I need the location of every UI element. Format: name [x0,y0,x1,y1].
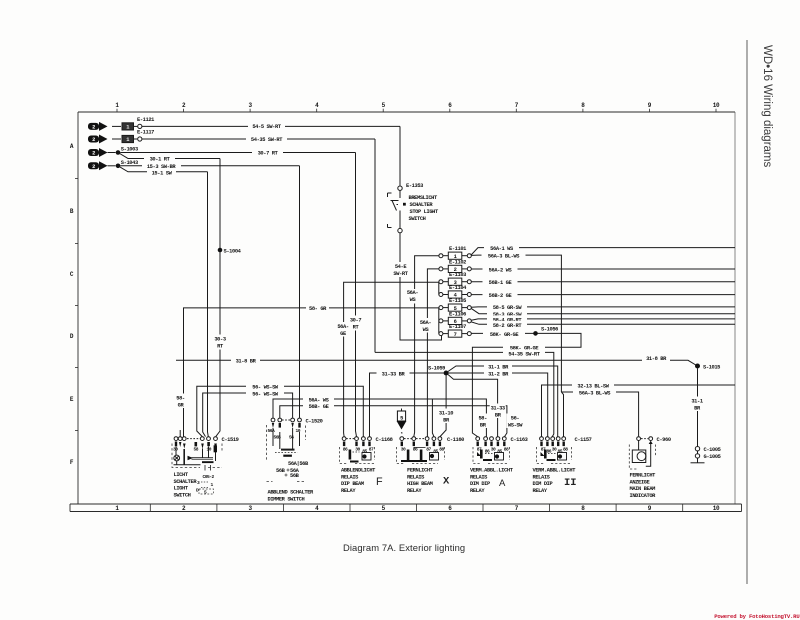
wire 58-3 GR-SW [471,308,735,313]
dim dip relay A internals [477,442,506,462]
sidebar caption WD-16 Wiring diagrams [761,45,773,167]
wire 54-E below stop switch [400,233,442,340]
svg-text:D: D [70,333,74,340]
svg-text:2: 2 [92,164,95,170]
wire 56B-1 GE [471,281,735,283]
svg-text:56B- GE: 56B- GE [309,404,330,410]
svg-text:87: 87 [477,447,482,453]
svg-text:58-: 58- [176,396,185,402]
svg-text:58-2 GR-RT: 58-2 GR-RT [493,323,523,329]
wire E-1101 left to high-beam relay [414,256,439,437]
svg-text:2: 2 [182,505,186,512]
svg-text:56B: 56B [290,473,300,479]
off-page arrow connector row A4 [88,161,108,170]
svg-text:E-1104: E-1104 [449,285,467,291]
svg-text:RELAIS: RELAIS [407,474,425,480]
svg-text:E: E [70,396,74,403]
wire 58-4 GR-RT [471,319,735,320]
wire 31-1 BR [448,366,558,437]
wire E-1103 left to dip-beam relay [344,282,439,436]
svg-text:31-10: 31-10 [439,411,453,417]
svg-text:2: 2 [182,102,186,109]
svg-text:56A: 56A [268,428,276,434]
dim dip relay II internals [540,442,566,462]
dip beam relay C-1168 terminals [342,437,371,441]
svg-text:30-7 RT: 30-7 RT [258,150,279,156]
svg-text:DIM DIP: DIM DIP [470,481,490,487]
svg-text:3: 3 [248,505,252,512]
splice S-1004 [218,248,223,253]
svg-text:HIGH BEAM: HIGH BEAM [407,481,433,487]
svg-text:A: A [499,478,506,489]
svg-text:D: D [196,488,199,494]
connector E-1117 [112,135,142,142]
svg-text:56A|56B: 56A|56B [288,461,309,467]
svg-text:RELAY: RELAY [470,488,485,494]
connector E-1107 [439,330,471,337]
svg-text:85: 85 [362,449,367,455]
light switch stub terminal 2 [179,430,181,437]
svg-text:E-1101: E-1101 [449,246,466,252]
svg-text:2: 2 [92,137,95,143]
svg-text:SWITCH: SWITCH [409,216,426,222]
page sidebar rule [746,40,748,584]
svg-text:C-1168: C-1168 [376,437,393,443]
svg-text:Diagram 7A. Exterior lighting: Diagram 7A. Exterior lighting [343,542,465,553]
ruler ticks top [75,109,716,512]
wire vertical 54-5 down to stop switch [399,126,401,185]
svg-text:56A-1 WS: 56A-1 WS [490,246,514,252]
svg-text:C-1163: C-1163 [511,437,528,443]
svg-text:31-2 BR: 31-2 BR [488,371,509,377]
svg-text:58-: 58- [478,416,487,422]
wire 56B-2 GE [471,294,735,296]
svg-text:1: 1 [211,482,214,488]
off-page arrow connector row A1 [88,122,108,131]
wire 31-10 BR S-1059 down to high beam relay [440,376,446,437]
splice S-1015 [695,364,700,369]
dimmer switch C-1520 terminals [271,418,301,422]
off-page arrow down to diagram 5 [401,409,403,412]
svg-text:56: 56 [289,434,294,440]
svg-text:RELAY: RELAY [407,488,422,494]
svg-text:87: 87 [541,447,546,453]
wire 32-13 BL-SW relay II to frame edge [542,385,736,437]
svg-text:VERM.ABBL.LICHT: VERM.ABBL.LICHT [533,468,577,474]
svg-text:30-1 RT: 30-1 RT [150,157,171,163]
svg-text:S-1004: S-1004 [224,248,242,254]
svg-text:S-1003: S-1003 [121,147,138,153]
svg-text:F: F [376,476,383,488]
svg-text:F: F [70,459,74,466]
svg-text:6: 6 [448,505,452,512]
ruler numbers [70,102,720,512]
wire 54-35 run to dim dip relay II [375,352,554,436]
svg-text:86: 86 [343,447,348,453]
ground [691,458,705,463]
connector E-1104 [439,291,471,298]
svg-text:30: 30 [552,447,557,453]
svg-text:9: 9 [648,505,652,512]
wire 30-7 RT [120,152,355,154]
wire 58K- GR-GE with splice S-1056 [471,333,581,436]
svg-text:FERNLICHT: FERNLICHT [630,473,657,479]
high beam relay C-1160 terminals [400,437,442,441]
wire 56- WS-SW light switch to dip relay [197,386,363,436]
svg-text:56A-: 56A- [420,320,432,326]
svg-text:RELAIS: RELAIS [470,474,488,480]
connector E-1102 [439,265,471,272]
svg-text:E-1102: E-1102 [449,259,466,265]
svg-text:DIM DIP: DIM DIP [533,481,553,487]
wire 31-8 BR ground bus [176,360,698,366]
light switch sub connector C05-2 [205,465,211,471]
svg-text:30-7: 30-7 [350,318,362,324]
svg-text:G-1005: G-1005 [704,454,721,460]
svg-text:88: 88 [439,447,444,453]
off-page arrow connector row A3 [88,148,108,157]
wire 56- WS-SW light switch to dimmer [203,393,293,437]
svg-text:54-35 SW-RT: 54-35 SW-RT [251,137,283,143]
svg-text:WD•16 Wiring diagrams: WD•16 Wiring diagrams [761,45,773,167]
svg-text:SWITCH: SWITCH [174,492,191,498]
svg-text:58- GR: 58- GR [309,306,327,312]
svg-text:BREMSLICHT: BREMSLICHT [409,195,439,201]
wire 15-3 SW-BR [120,165,299,167]
wire 58-5 GR-SW [471,306,735,308]
svg-text:SCHALTER: SCHALTER [410,202,434,208]
svg-text:C: C [70,271,74,278]
svg-text:SCHALTER: SCHALTER [174,479,198,485]
svg-text:S-1059: S-1059 [428,366,445,372]
svg-text:10: 10 [713,102,720,109]
svg-text:4: 4 [315,505,319,512]
svg-text:30: 30 [401,447,406,453]
svg-text:B: B [70,208,74,215]
svg-text:E-1117: E-1117 [137,130,154,136]
wire 15-1 SW [118,166,208,172]
svg-text:31-33: 31-33 [491,406,505,412]
wire 58-2 GR-RT [471,322,735,324]
bracket E-1105/E-1106/E-1107 left [438,308,440,334]
svg-text:E-1105: E-1105 [449,298,466,304]
svg-text:10: 10 [207,446,212,452]
main beam indicator lamp [649,441,653,444]
svg-text:WS-SW: WS-SW [508,423,523,429]
svg-text:5: 5 [382,102,386,109]
svg-text:RELAIS: RELAIS [533,474,551,480]
svg-text:88: 88 [504,447,509,453]
svg-text:RELAY: RELAY [341,488,356,494]
svg-text:31-1: 31-1 [691,399,703,405]
wire 31-1 BR S-1015 down to ground [697,369,699,447]
svg-text:1: 1 [126,137,129,143]
svg-text:A: A [70,143,74,150]
svg-text:9: 9 [648,102,652,109]
connector E-1105 [439,304,471,311]
svg-text:54-35 SW-RT: 54-35 SW-RT [508,351,540,357]
svg-text:C-1519: C-1519 [222,437,239,443]
svg-text:C05-2: C05-2 [203,474,215,480]
drawing frame [70,112,742,512]
svg-text:8: 8 [581,102,585,109]
bracket E-1103/E-1104 left [438,282,440,295]
svg-text:6: 6 [448,102,452,109]
svg-text:1: 1 [115,102,119,109]
wire 54-35 SW-RT [142,138,375,140]
off-page arrow connector row A2 [88,135,108,144]
svg-text:3: 3 [197,480,200,486]
svg-text:56-: 56- [511,416,520,422]
svg-text:LIGHT: LIGHT [174,486,189,492]
svg-text:56A-: 56A- [337,324,349,330]
wire 31-33 BR from dip relay to S-1059 [370,373,444,437]
svg-text:SW-RT: SW-RT [393,271,408,277]
wire 56A-2 WS [471,268,735,270]
dim dip relay A C-1163 terminals [476,437,506,441]
dimmer switch internals [272,423,301,428]
high beam relay internals [401,442,442,463]
svg-text:31-8 BR: 31-8 BR [646,356,667,362]
wire vertical 15-1 down to light switch [207,172,210,437]
wire 30-1 RT [118,153,220,159]
svg-text:30: 30 [491,447,496,453]
light switch dashed enclosure [172,444,222,468]
svg-text:1: 1 [126,125,129,131]
svg-text:7: 7 [515,505,519,512]
wire 56A- WS dimmer to relays [273,399,486,437]
svg-text:54-E: 54-E [395,264,408,270]
svg-text:54-5 SW-RT: 54-5 SW-RT [252,124,282,130]
svg-text:E-1353: E-1353 [406,183,423,189]
wire S-1059 branch to dim dip relay A [448,375,498,437]
svg-text:II: II [564,477,577,489]
svg-text:15-1 SW: 15-1 SW [152,170,173,176]
splice S-1059 [444,371,449,376]
connector E-1121 [112,123,142,130]
splice S-1043 [108,165,116,167]
svg-text:E-1103: E-1103 [449,272,466,278]
svg-text:FERNLICHT: FERNLICHT [407,468,434,474]
svg-text:58K- GR-GE: 58K- GR-GE [490,332,520,338]
svg-text:8: 8 [581,505,585,512]
wire 56A-3 BL-WS [471,255,561,392]
svg-text:S-1015: S-1015 [703,364,720,370]
wire 56B- GE dimmer to dim dip relay A [280,406,507,437]
connector C-1005 [695,447,699,451]
wire vertical 30-1 down [216,159,220,437]
wire vertical 30-7 down [356,153,357,437]
svg-text:LICHT: LICHT [174,472,189,478]
dimmer dashed enclosure [267,425,306,482]
svg-text:56A-: 56A- [407,290,419,296]
svg-text:E-1121: E-1121 [137,117,154,123]
svg-text:RELAIS: RELAIS [341,474,359,480]
svg-text:C-960: C-960 [657,437,671,443]
svg-text:3: 3 [248,102,252,109]
light switch C-1519 terminals [174,437,217,441]
main beam indicator C-960 terminals [637,437,653,441]
svg-text:7: 7 [454,332,457,338]
svg-text:31-33 BR: 31-33 BR [382,371,406,377]
wire 56A-1 WS [471,248,735,255]
svg-text:E-1107: E-1107 [449,324,466,330]
svg-text:85: 85 [433,449,438,455]
connector G-1005 [697,451,699,454]
light switch internals [175,442,217,449]
svg-text:87: 87 [369,447,374,453]
svg-text:C-1160: C-1160 [447,437,464,443]
connector E-1103 [439,278,471,285]
svg-text:31-8 BR: 31-8 BR [236,359,257,365]
wire vertical 54-35 down [374,139,376,352]
dim dip relay II C-1157 terminals [540,437,566,441]
svg-text:56B-2 GE: 56B-2 GE [489,293,513,299]
svg-text:56A-2 WS: 56A-2 WS [489,267,513,273]
svg-text:DIP BEAM: DIP BEAM [341,481,364,487]
svg-text:56A-3 BL-WS: 56A-3 BL-WS [488,253,520,259]
svg-text:C-1005: C-1005 [704,447,721,453]
wire 54-5 SW-RT [142,125,400,127]
connector E-1101 [439,252,471,259]
svg-text:56B: 56B [276,468,286,474]
svg-text:2: 2 [92,151,95,157]
svg-text:88: 88 [563,447,568,453]
wire 58- GR light switch to E-1105 [184,308,439,437]
svg-text:30-3: 30-3 [214,337,226,343]
svg-text:5: 5 [204,490,207,496]
svg-text:1: 1 [115,505,119,512]
svg-text:56- WS-SW: 56- WS-SW [252,392,279,398]
svg-text:7: 7 [515,102,519,109]
wire E-1102 left to high-beam relay [427,269,439,437]
svg-text:Powered by FotoHostingTV.RU: Powered by FotoHostingTV.RU [714,613,799,620]
svg-text:85: 85 [497,449,502,455]
svg-text:C-1157: C-1157 [575,437,592,443]
svg-text:ABBLENDLICHT: ABBLENDLICHT [341,468,376,474]
svg-text:86: 86 [413,447,418,453]
wire vertical 15-3 down to dimmer [299,166,301,418]
svg-text:4: 4 [315,102,319,109]
svg-text:X: X [443,476,450,488]
svg-text:INDICATOR: INDICATOR [630,493,657,499]
svg-text:ABBLEND SCHALTER: ABBLEND SCHALTER [268,490,315,496]
svg-text:5: 5 [382,505,386,512]
svg-text:RELAY: RELAY [533,488,548,494]
svg-text:DIMMER SWITCH: DIMMER SWITCH [268,497,305,503]
svg-text:5: 5 [400,416,403,422]
svg-text:56A-3 BL-WS: 56A-3 BL-WS [579,390,611,396]
splice S-1003 [108,152,116,154]
stop light switch E-1353 [398,186,402,190]
dip beam relay internals [343,442,371,463]
connector E-1106 [439,317,471,324]
svg-text:C-1520: C-1520 [306,418,323,424]
svg-text:87: 87 [426,447,431,453]
svg-text:30: 30 [355,447,360,453]
svg-text:58: 58 [194,446,199,452]
wire 56A-3 BL-WS to main beam indicator [561,392,638,436]
wire 31-2 BR [448,373,547,437]
svg-text:STOP LIGHT: STOP LIGHT [410,209,440,215]
svg-text:VERM.ABBL.LICHT: VERM.ABBL.LICHT [470,468,514,474]
svg-text:10: 10 [713,505,720,512]
svg-text:MAIN BEAM: MAIN BEAM [630,486,656,492]
svg-text:ANZEIGE: ANZEIGE [630,479,651,485]
svg-text:E-1106: E-1106 [449,311,466,317]
svg-text:56B-1 GE: 56B-1 GE [489,280,513,286]
stacked labels above dim dip relay A [476,414,490,429]
svg-text:S-1056: S-1056 [541,327,558,333]
svg-text:2: 2 [92,125,95,131]
svg-text:86: 86 [485,449,490,455]
